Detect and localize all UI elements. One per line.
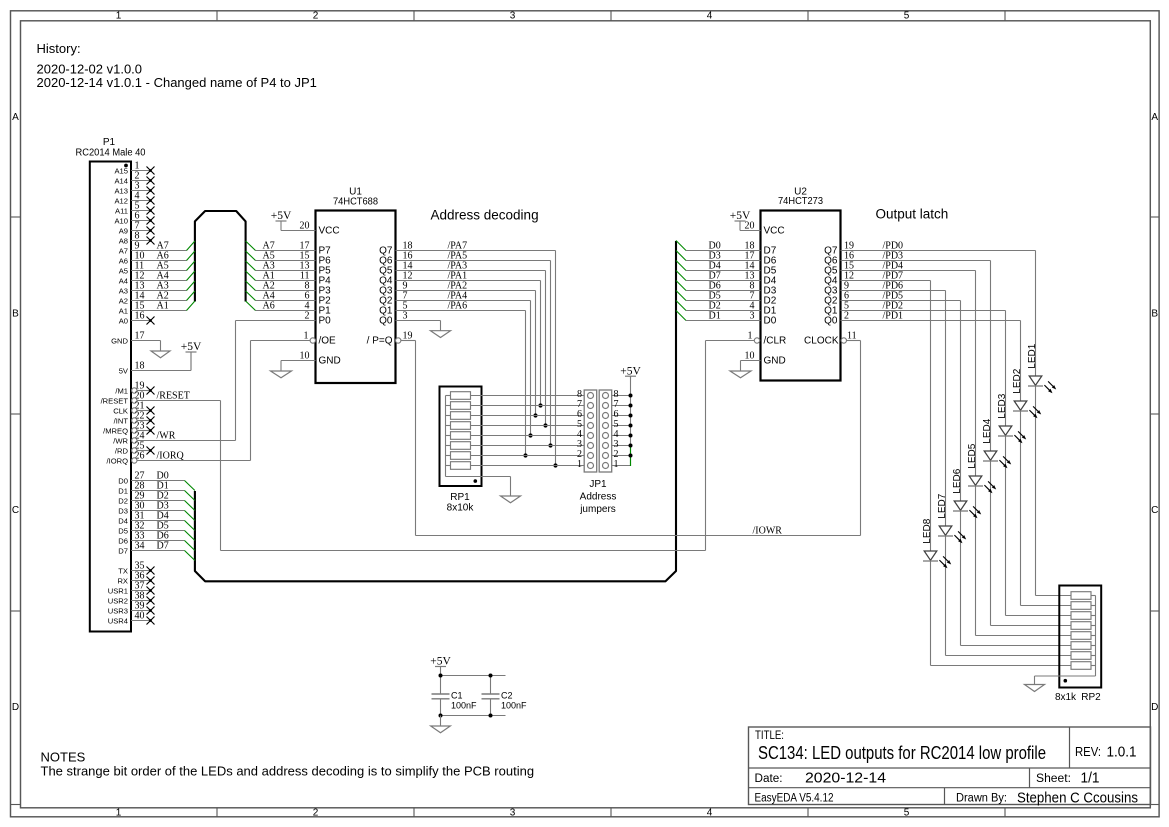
svg-text:A12: A12 [114, 196, 128, 205]
bus entry A6 left [187, 251, 195, 261]
LED1 [1028, 251, 1056, 394]
ground at U2 pin 10 [730, 361, 751, 378]
svg-text:RX: RX [117, 576, 128, 585]
bus entry data row 5 to U2 [676, 281, 686, 291]
svg-text:/RESET: /RESET [157, 391, 190, 402]
svg-text:A15: A15 [114, 166, 128, 175]
label LED8 [922, 518, 933, 543]
svg-text:D: D [1151, 702, 1158, 713]
address bus arch [195, 211, 246, 302]
wire /IOWR from U1 P=Q to U2 CLOCK [401, 341, 861, 536]
bus entry D3 from P1 [185, 511, 195, 521]
LED3 [998, 311, 1026, 444]
+5V flag at C1 C2 [435, 666, 446, 668]
LED7 [938, 291, 966, 544]
svg-text:JP1: JP1 [589, 479, 607, 490]
U2 pin 19 Q7 [824, 241, 854, 257]
bus entry D5 from P1 [185, 531, 195, 541]
JP1 pin circle right row 7 [603, 403, 609, 409]
wire /PD6 to LED column [841, 290, 946, 292]
svg-text:/IORQ: /IORQ [106, 456, 128, 465]
bus entry data row 8 to U2 [676, 311, 686, 321]
wire JP1 to +5V rail row 4 [612, 435, 631, 437]
svg-text:A5: A5 [119, 266, 128, 275]
svg-text:Drawn By:: Drawn By: [956, 793, 1007, 805]
svg-text:A11: A11 [115, 206, 128, 215]
RP2 resistor element 6 [1071, 642, 1096, 650]
bus entry data row 4 to U2 [676, 271, 686, 281]
junction C1 top [439, 674, 443, 678]
bus entry D2 from P1 [185, 501, 195, 511]
wire /PD4 to LED column [841, 270, 976, 272]
title block text REV [1075, 745, 1137, 761]
svg-text:+5V: +5V [181, 341, 202, 353]
P1 pin 37 USR1 [108, 581, 155, 596]
svg-text:Address: Address [580, 492, 617, 503]
capacitor C2 100nF [482, 676, 528, 716]
U2 pin 8 D3 [686, 281, 777, 297]
svg-text:D7: D7 [118, 546, 128, 555]
U1 pin 12 Q4 [379, 271, 412, 287]
junction +5V rail row 6 [629, 414, 633, 418]
svg-text:/M1: /M1 [115, 386, 128, 395]
svg-text:GND: GND [111, 336, 128, 345]
svg-text:/MREQ: /MREQ [103, 426, 128, 435]
svg-text:100nF: 100nF [451, 701, 477, 711]
JP1 pin circle left row 8 [588, 393, 594, 399]
svg-text:B: B [1151, 309, 1158, 320]
bus entry D7 from P1 [185, 551, 195, 561]
bus entry data row 7 to U2 [676, 301, 686, 311]
wire /RESET from P1 to U2 /CLR [221, 341, 755, 551]
P1 pin 33 D6 [118, 531, 184, 546]
JP1 pin circle right row 6 [603, 413, 609, 419]
LED4 [983, 261, 1011, 469]
svg-text:LED5: LED5 [967, 443, 978, 468]
svg-text:1: 1 [116, 807, 122, 818]
junction +5V rail row 3 [629, 444, 633, 448]
label LED3 [997, 393, 1008, 418]
wire LED1 to RP2 [1036, 386, 1072, 596]
svg-text:3: 3 [510, 807, 516, 818]
bus entry D6 from P1 [185, 541, 195, 551]
P1 pin 39 USR3 [108, 601, 155, 616]
svg-text:VCC: VCC [319, 226, 340, 237]
svg-text:RC2014 Male 40: RC2014 Male 40 [76, 147, 146, 158]
P1 pin 24 /WR [113, 431, 235, 446]
wire /PD0 to LED column [841, 250, 1036, 252]
svg-text:Q0: Q0 [824, 316, 838, 327]
RP1 resistor element 4 [446, 422, 471, 430]
svg-text:Stephen C Ccousins: Stephen C Ccousins [1017, 791, 1138, 807]
svg-text:D1: D1 [709, 311, 721, 322]
bus entry data row 2 to U2 [676, 251, 686, 261]
JP1 labels [579, 479, 616, 515]
svg-text:LED2: LED2 [1012, 368, 1023, 393]
bus entry A1 left [187, 301, 195, 311]
RP1 resistor element 7 [446, 452, 471, 460]
svg-text:/INT: /INT [114, 416, 129, 425]
svg-text:1: 1 [577, 459, 582, 470]
svg-text:History:: History: [37, 41, 81, 56]
RP1 common bus [446, 396, 511, 477]
U1 pin 9 Q3 [379, 281, 407, 297]
P1 pin 18 5V [119, 361, 191, 376]
title block text Date [755, 771, 887, 787]
wire RP1 to JP1 row 3 [471, 445, 585, 447]
wire LED5 to RP2 [976, 486, 1072, 636]
svg-text:A3: A3 [119, 286, 128, 295]
svg-text:LED1: LED1 [1027, 343, 1038, 368]
svg-text:LED8: LED8 [922, 518, 933, 543]
svg-text:3: 3 [510, 10, 516, 21]
svg-text:VCC: VCC [764, 226, 785, 237]
label LED1 [1027, 343, 1038, 368]
svg-text:D0: D0 [764, 316, 777, 327]
data bus P1 to U2 [195, 241, 676, 581]
P1 pin 35 TX [118, 561, 154, 576]
bus entry A2 left [187, 291, 195, 301]
bus entry arch right row 7 [246, 301, 256, 311]
JP1 pin circle left row 3 [588, 443, 594, 449]
JP1 pin circle right row 2 [603, 453, 609, 459]
JP1 pin circle left row 4 [588, 433, 594, 439]
bus entry arch right row 1 [246, 241, 256, 251]
svg-text:/IOWR: /IOWR [753, 525, 783, 536]
wire RP1 to JP1 row 2 [471, 455, 585, 457]
svg-text:/ P=Q: / P=Q [367, 336, 393, 347]
RP2 resistor element 4 [1071, 622, 1096, 630]
wire LED7 to RP2 [946, 536, 1072, 656]
svg-text:A: A [1151, 112, 1158, 123]
wire LED4 to RP2 [991, 461, 1072, 626]
P1 pin 2 A14 [114, 171, 154, 186]
JP1 pin circle left row 2 [588, 453, 594, 459]
svg-text:Output latch: Output latch [876, 207, 949, 222]
label LED7 [937, 493, 948, 518]
svg-text:P0: P0 [319, 316, 332, 327]
wire /PD3 to LED column [841, 260, 991, 262]
ground at RP1 common [501, 477, 521, 503]
svg-text:CLK: CLK [113, 406, 128, 415]
U2 pin 9 Q3 [824, 281, 849, 297]
U1 pin 5 Q1 [379, 301, 407, 317]
svg-text:A0: A0 [119, 316, 128, 325]
junction +5V rail row 8 [629, 394, 633, 398]
wire /PD2 to LED column [841, 310, 1006, 312]
svg-text:D7: D7 [157, 541, 169, 552]
svg-text:jumpers: jumpers [579, 504, 616, 515]
P1 pin 23 /MREQ [103, 421, 154, 436]
svg-text:A10: A10 [114, 216, 128, 225]
resistor pack RP2 8x1k [1055, 586, 1101, 704]
svg-text:A9: A9 [119, 226, 128, 235]
wire /PA6 [396, 311, 526, 456]
svg-text:Address decoding: Address decoding [431, 208, 539, 223]
U1 pin 6 P2 [256, 291, 332, 307]
svg-text:/WR: /WR [157, 431, 176, 442]
wire /IORQ from P1 to U1 /OE [250, 341, 252, 461]
JP1 pin circle left row 6 [588, 413, 594, 419]
P1 pin 7 A9 [119, 221, 155, 236]
RP1 resistor element 1 [446, 392, 471, 400]
svg-text:1/1: 1/1 [1081, 771, 1100, 787]
svg-text:D1: D1 [118, 486, 128, 495]
svg-text:LED6: LED6 [952, 468, 963, 493]
P1 pin 4 A12 [114, 191, 154, 206]
bus entry data row 3 to U2 [676, 261, 686, 271]
svg-text:1: 1 [614, 459, 619, 470]
notes text block [41, 750, 535, 779]
bus entry D0 from P1 [185, 481, 195, 491]
svg-text:A2: A2 [119, 296, 128, 305]
ground at P1 pin 17 [151, 341, 170, 358]
U2 pin 7 D2 [686, 291, 777, 307]
P1 pin 20 /RESET [101, 391, 221, 406]
svg-text:A8: A8 [119, 236, 128, 245]
bus entry A4 left [187, 271, 195, 281]
svg-text:GND: GND [764, 356, 786, 367]
P1 pin 38 USR2 [108, 591, 155, 606]
bus entry D4 from P1 [185, 521, 195, 531]
bus entry D1 from P1 [185, 491, 195, 501]
title block text Drawn By [956, 791, 1138, 807]
svg-text:1.0.1: 1.0.1 [1107, 745, 1137, 761]
wire RP1 to JP1 row 5 [471, 425, 585, 427]
P1 pin 26 /IORQ [106, 451, 250, 466]
RP2 resistor element 1 [1071, 592, 1096, 600]
wire JP1 to +5V rail row 5 [612, 425, 631, 427]
U2 pin 3 D0 [686, 311, 777, 327]
svg-text:USR2: USR2 [108, 596, 128, 605]
P1 pin 11 A5 [119, 261, 187, 276]
svg-text:/IORQ: /IORQ [157, 451, 185, 462]
svg-text:1: 1 [116, 10, 122, 21]
svg-text:+5V: +5V [730, 210, 751, 222]
RP2 resistor element 7 [1071, 652, 1096, 660]
U1 pin 18 Q7 [379, 241, 412, 257]
RP2 common bus [1035, 596, 1096, 677]
RP1 resistor element 8 [446, 462, 471, 470]
wire /PA3 [396, 271, 546, 426]
latch U2 74HCT273 [761, 187, 841, 381]
svg-text:D2: D2 [118, 496, 128, 505]
svg-text:CLOCK: CLOCK [804, 336, 839, 347]
svg-text:A6: A6 [263, 301, 275, 312]
P1 pin 14 A2 [119, 291, 187, 306]
RP1 resistor element 3 [446, 412, 471, 420]
svg-text:/RESET: /RESET [101, 396, 129, 405]
svg-text:GND: GND [319, 356, 341, 367]
svg-text:A7: A7 [119, 246, 128, 255]
P1 pin 29 D2 [118, 491, 184, 506]
jumper header JP1 [584, 390, 612, 472]
svg-text:2: 2 [313, 807, 319, 818]
comparator U1 74HCT688 [316, 187, 396, 384]
junction C1 bottom [439, 714, 443, 718]
U2 pin 10 GND [741, 351, 786, 367]
P1 pin 25 /RD [115, 441, 155, 456]
svg-text:8x10k: 8x10k [447, 502, 475, 513]
+5V flag at U1 pin 20 [276, 220, 287, 222]
P1 pin 30 D3 [118, 501, 184, 516]
junction /PA1 to jumper row [538, 403, 542, 407]
U1 pin 19 / P=Q [367, 331, 413, 347]
connector P1 RC2014 Male 40 [76, 137, 146, 632]
U1 pin 11 P4 [256, 271, 332, 287]
P1 pin 1 A15 [114, 161, 154, 176]
wire /PD1 to LED column [841, 320, 1021, 322]
svg-text:D0: D0 [118, 476, 128, 485]
wire RP1 to JP1 row 1 [471, 465, 585, 467]
P1 pin 21 CLK [113, 401, 154, 416]
svg-text:USR3: USR3 [108, 606, 128, 615]
P1 pin 16 A0 [119, 311, 155, 326]
P1 pin 32 D5 [118, 521, 184, 536]
svg-text:A14: A14 [114, 176, 128, 185]
P1 pin 8 A8 [119, 231, 155, 246]
bus entry data row 1 to U2 [676, 241, 686, 251]
bus entry A3 left [187, 281, 195, 291]
P1 pin 15 A1 [119, 301, 187, 316]
svg-text:SC134: LED outputs for RC2014: SC134: LED outputs for RC2014 low profil… [758, 743, 1046, 763]
wire RP1 to JP1 row 6 [471, 415, 585, 417]
svg-text:B: B [12, 309, 19, 320]
junction /PA7 to jumper row [553, 463, 557, 467]
wire JP1 to +5V rail row 8 [612, 395, 631, 397]
U2 pin 13 D4 [686, 271, 777, 287]
LED8 [923, 281, 951, 569]
wire /PA1 [396, 281, 541, 406]
RP1 resistor element 6 [446, 442, 471, 450]
label LED5 [967, 443, 978, 468]
P1 pin 40 USR4 [108, 611, 155, 626]
svg-text:/OE: /OE [319, 336, 337, 347]
JP1 pin circle left row 5 [588, 423, 594, 429]
svg-text:C2: C2 [501, 691, 513, 701]
P1 pin 22 /INT [114, 411, 155, 426]
wire /PA7 [396, 251, 556, 466]
JP1 pin circle right row 3 [603, 443, 609, 449]
svg-text:74HCT273: 74HCT273 [778, 196, 823, 207]
wire /PA4 [396, 301, 531, 436]
U2 pin 2 Q0 [824, 311, 849, 327]
wire /PD7 to LED column [841, 280, 931, 282]
svg-text:100nF: 100nF [501, 701, 527, 711]
svg-text:NOTES: NOTES [41, 750, 86, 765]
LED6 [953, 301, 981, 519]
svg-text:/CLR: /CLR [764, 336, 787, 347]
JP1 pin circle right row 8 [603, 393, 609, 399]
U1 pin 3 Q0 [379, 311, 407, 327]
U2 pin 15 Q5 [824, 261, 854, 277]
+5V rail at JP1 [630, 376, 632, 466]
svg-text:2: 2 [313, 10, 319, 21]
junction C2 top [489, 674, 493, 678]
svg-text:A1: A1 [157, 301, 169, 312]
wire JP1 to +5V rail row 2 [612, 455, 631, 457]
P1 pin 6 A10 [114, 211, 154, 226]
wire JP1 to +5V rail row 7 [612, 405, 631, 407]
svg-text:USR1: USR1 [108, 586, 128, 595]
P1 pin 5 A11 [115, 201, 154, 216]
RP1 resistor element 5 [446, 432, 471, 440]
wire /PA5 [396, 261, 551, 446]
U2 pin 6 Q2 [824, 291, 849, 307]
U1 pin 14 Q5 [379, 261, 412, 277]
P1 pin 10 A6 [119, 251, 187, 266]
svg-text:Q0: Q0 [379, 316, 393, 327]
wire RP1 to JP1 row 4 [471, 435, 585, 437]
junction +5V rail row 2 [629, 454, 633, 458]
bus entry arch right row 2 [246, 251, 256, 261]
P1 pin 17 GND [111, 331, 160, 346]
bus entry arch right row 5 [246, 281, 256, 291]
U2 pin 17 D6 [686, 251, 777, 267]
junction /PA4 to jumper row [528, 433, 532, 437]
label LED2 [1012, 368, 1023, 393]
+5V flag at JP1 [625, 375, 636, 377]
wire JP1 to +5V rail row 3 [612, 445, 631, 447]
LED5 [968, 271, 996, 494]
svg-text:EasyEDA V5.4.12: EasyEDA V5.4.12 [755, 793, 834, 805]
junction +5V rail row 7 [629, 404, 633, 408]
ground at U1 pin 10 [271, 361, 292, 378]
svg-text:The strange bit order of the L: The strange bit order of the LEDs and ad… [41, 763, 535, 778]
ground at U1 Q0 [431, 331, 451, 338]
wire LED6 to RP2 [961, 511, 1072, 646]
svg-text:D: D [12, 702, 19, 713]
wire LED2 to RP2 [1021, 411, 1072, 606]
+5V flag at P1 pin 18 [181, 341, 202, 370]
svg-text:5: 5 [904, 10, 910, 21]
junction +5V rail row 5 [629, 424, 633, 428]
svg-text:A6: A6 [119, 256, 128, 265]
P1 pin 31 D4 [118, 511, 184, 526]
U1 pin 1 /OE [251, 331, 337, 347]
svg-text:2020-12-14 v1.0.1 - Changed na: 2020-12-14 v1.0.1 - Changed name of P4 t… [37, 75, 317, 90]
U1 pin 15 P6 [256, 251, 332, 267]
+5V flag at U2 pin 20 [735, 220, 746, 222]
U2 pin 16 Q6 [824, 251, 854, 267]
P1 pin 3 A13 [114, 181, 154, 196]
svg-text:D3: D3 [118, 506, 128, 515]
svg-text:Sheet:: Sheet: [1036, 773, 1071, 785]
P1 pin 34 D7 [118, 541, 184, 556]
wire /WR from P1 to U1 P0 [235, 321, 237, 441]
P1 pin 19 /M1 [115, 381, 154, 396]
svg-text:A: A [12, 112, 19, 123]
svg-text:TITLE:: TITLE: [755, 730, 784, 742]
junction /PA2 to jumper row [533, 413, 537, 417]
ground at capacitors [431, 716, 451, 733]
wire JP1 to +5V rail row 6 [612, 415, 631, 417]
bus entry arch right row 3 [246, 261, 256, 271]
P1 pin 13 A3 [119, 281, 187, 296]
U1 pin 13 P5 [256, 261, 332, 277]
svg-text:4: 4 [707, 807, 713, 818]
svg-text:+5V: +5V [620, 365, 641, 377]
junction /PA3 to jumper row [543, 423, 547, 427]
wire LED3 to RP2 [1006, 436, 1072, 616]
U1 pin 7 Q2 [379, 291, 407, 307]
svg-text:D5: D5 [118, 526, 128, 535]
wire LED8 to RP2 [931, 561, 1072, 666]
junction /PA6 to jumper row [523, 453, 527, 457]
bus entry arch right row 6 [246, 291, 256, 301]
label LED6 [952, 468, 963, 493]
U1 pin 10 GND [281, 351, 341, 367]
